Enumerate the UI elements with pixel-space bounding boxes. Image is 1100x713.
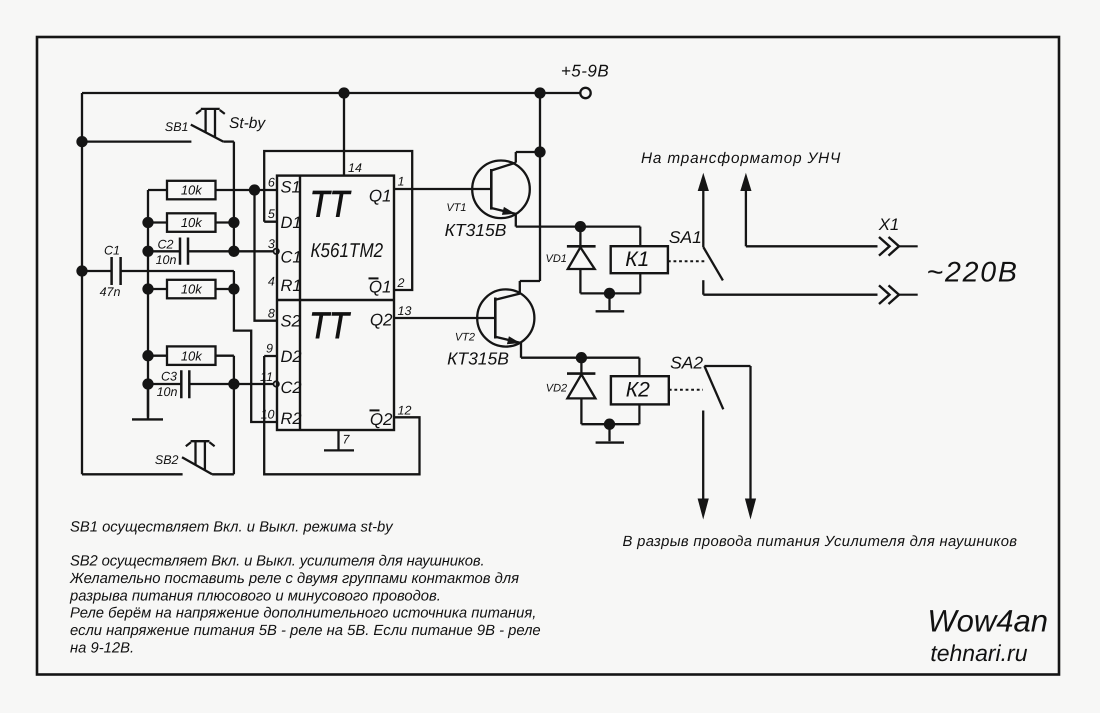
wire K1 bottom: [580, 292, 640, 294]
svg-text:КТ315В: КТ315В: [447, 349, 509, 369]
arrow down headphone 1: [698, 499, 709, 520]
node junction C1 left: [78, 267, 87, 276]
relay K2 coil: [611, 358, 669, 425]
node junction R4 left: [144, 351, 153, 360]
node junction top rail pin14: [340, 89, 349, 98]
wire SB1 right rail down: [233, 142, 235, 252]
svg-text:SA1: SA1: [669, 228, 702, 247]
arrow down headphone 2: [745, 499, 756, 520]
svg-text:tehnari.ru: tehnari.ru: [930, 640, 1027, 666]
svg-text:X1: X1: [878, 215, 900, 234]
svg-text:S1: S1: [281, 179, 301, 197]
svg-text:Q2: Q2: [370, 310, 393, 329]
wire R4 right down to SB2: [233, 356, 235, 475]
diode VD2: [567, 358, 595, 425]
wire X1 upper: [746, 245, 878, 247]
wire K2 dashed link SA2: [669, 389, 703, 391]
svg-text:14: 14: [348, 161, 362, 175]
wire VT2 emitter to K2: [521, 357, 639, 359]
wire X1 lower: [703, 294, 877, 296]
svg-text:C2: C2: [158, 237, 174, 251]
wire K2 bottom: [581, 423, 639, 425]
wire left supply vertical: [81, 93, 83, 474]
overbar Q1bar: [369, 277, 379, 279]
node junction C2 left: [144, 247, 153, 256]
svg-text:К561ТМ2: К561ТМ2: [311, 240, 384, 262]
svg-text:9: 9: [266, 342, 273, 356]
capacitor C3 10n: [148, 370, 273, 398]
svg-text:6: 6: [268, 176, 275, 190]
node junction R3 left: [144, 285, 153, 294]
relay K1 coil: [611, 227, 668, 294]
svg-text:Желательно поставить реле с дв: Желательно поставить реле с двумя группа…: [69, 571, 519, 587]
svg-text:VD1: VD1: [545, 253, 566, 265]
wire Q1bar to D1 feedback: [264, 151, 412, 290]
connector X1 chevrons lower: [879, 285, 918, 304]
node junction K2 ground: [605, 420, 614, 429]
svg-text:5: 5: [268, 207, 275, 221]
node junction R3 right: [229, 285, 238, 294]
svg-text:TT: TT: [310, 184, 352, 225]
svg-text:R2: R2: [281, 410, 302, 428]
resistor R 10k row2: [148, 213, 234, 232]
node junction C3 right: [229, 380, 238, 389]
svg-text:2: 2: [397, 276, 405, 290]
wire Q2bar to D2 feedback: [264, 356, 419, 474]
svg-text:10n: 10n: [156, 253, 177, 267]
wire +5-9B power rail: [82, 92, 581, 94]
svg-text:SB1 осуществляет Вкл. и Выкл.: SB1 осуществляет Вкл. и Выкл. режима st-…: [70, 520, 394, 536]
node junction C3 left: [144, 380, 153, 389]
switch SB2: [182, 441, 234, 474]
ground pin7: [324, 430, 354, 450]
svg-text:10n: 10n: [157, 385, 178, 399]
node junction R2 right: [229, 218, 238, 227]
wire bottom left to SB2: [82, 473, 183, 475]
resistor R 10k row4: [148, 346, 234, 365]
svg-text:В разрыв провода питания Усили: В разрыв провода питания Усилителя для н…: [623, 534, 1018, 550]
svg-text:3: 3: [268, 237, 275, 251]
node junction SB1 left: [78, 137, 87, 146]
overbar Q2bar: [370, 409, 380, 411]
svg-text:Q2: Q2: [370, 410, 393, 429]
svg-text:10: 10: [261, 408, 275, 422]
svg-text:C2: C2: [281, 379, 302, 397]
svg-text:10k: 10k: [181, 215, 203, 230]
diode VD1: [567, 227, 596, 294]
resistor R 10k row3: [148, 280, 234, 299]
arrow to transformer 2: [740, 173, 751, 247]
svg-text:SB2: SB2: [155, 453, 179, 467]
node junction R2 left: [144, 218, 153, 227]
svg-text:1: 1: [398, 175, 405, 189]
svg-text:К1: К1: [625, 248, 649, 271]
svg-text:St-by: St-by: [229, 115, 266, 132]
svg-text:На трансформатор УНЧ: На трансформатор УНЧ: [641, 150, 841, 167]
wire K1 dashed link SA1: [668, 260, 706, 262]
node junction VD2 top: [577, 353, 586, 362]
wire C1 to R1 pin: [234, 271, 277, 422]
node junction VT1 collector: [536, 148, 545, 157]
switch SA2: [703, 366, 750, 499]
terminal X +5-9B open circle: [580, 88, 590, 98]
svg-text:~220В: ~220В: [927, 257, 1019, 289]
wire collector rail: [520, 93, 540, 294]
connector X1 chevrons upper: [879, 237, 918, 256]
svg-text:разрыва питания плюсового и ми: разрыва питания плюсового и минусового п…: [69, 588, 441, 604]
svg-text:на 9-12В.: на 9-12В.: [70, 641, 134, 657]
ground K1: [596, 293, 625, 311]
svg-text:C3: C3: [161, 369, 177, 383]
node junction K1 ground: [605, 289, 614, 298]
svg-text:VD2: VD2: [546, 383, 567, 395]
svg-text:Q1: Q1: [369, 277, 392, 296]
capacitor C1 47n: [82, 257, 234, 285]
svg-text:SB1: SB1: [165, 120, 189, 134]
svg-text:13: 13: [398, 304, 412, 318]
transistor Q2 VT2 KT315B: [477, 289, 534, 357]
svg-text:SA2: SA2: [670, 354, 704, 373]
svg-text:+5-9В: +5-9В: [561, 62, 609, 81]
svg-text:10k: 10k: [181, 183, 203, 198]
wire VT1 emitter to K1: [516, 225, 641, 227]
node junction VD1 top: [576, 222, 585, 231]
wire left bias rail: [147, 190, 149, 417]
ground K2: [596, 424, 624, 442]
svg-text:C1: C1: [281, 248, 302, 266]
wire pin14: [343, 93, 345, 176]
ground left rail: [132, 384, 163, 419]
svg-text:10k: 10k: [181, 282, 203, 297]
svg-text:7: 7: [343, 433, 351, 447]
svg-text:S2: S2: [281, 312, 301, 330]
wire S2 drop: [255, 190, 278, 321]
arrow to transformer 1: [698, 173, 709, 191]
svg-text:если напряжение питания 5В - р: если напряжение питания 5В - реле на 5В.…: [70, 623, 541, 639]
transistor Q1 VT1 KT315B: [472, 152, 540, 227]
node junction top rail collector: [536, 89, 545, 98]
svg-text:C1: C1: [104, 243, 120, 257]
svg-text:TT: TT: [309, 305, 351, 346]
svg-text:D2: D2: [281, 348, 302, 366]
svg-text:D1: D1: [281, 214, 302, 232]
wire Q2 to VT2: [394, 317, 495, 319]
svg-text:КТ315В: КТ315В: [445, 220, 507, 240]
switch SB1: [82, 109, 234, 142]
svg-text:К2: К2: [626, 378, 650, 401]
switch SA1: [703, 191, 723, 295]
pin bubble C1 input: [274, 249, 279, 254]
svg-text:SB2 осуществляет Вкл. и Выкл.: SB2 осуществляет Вкл. и Выкл. усилителя …: [70, 554, 484, 570]
svg-text:8: 8: [268, 307, 275, 321]
svg-text:47n: 47n: [100, 285, 121, 299]
op-amp U1 K561TM2 flip-flop box: [277, 176, 394, 430]
svg-text:12: 12: [398, 404, 412, 418]
node junction S1/S2: [250, 186, 259, 195]
capacitor C2 10n: [148, 238, 273, 265]
svg-text:Реле берём на напряжение допол: Реле берём на напряжение дополнительного…: [70, 606, 536, 622]
wire Q1 to VT1: [394, 188, 491, 190]
svg-text:11: 11: [260, 370, 273, 384]
svg-text:Wow4an: Wow4an: [927, 604, 1048, 639]
node junction C2 right: [229, 247, 238, 256]
svg-text:10k: 10k: [181, 348, 203, 363]
resistor R 10k row1: [148, 181, 277, 200]
pin bubble C2 input: [274, 381, 279, 386]
svg-text:VT2: VT2: [455, 332, 475, 344]
svg-text:Q1: Q1: [369, 186, 392, 205]
svg-text:R1: R1: [281, 277, 302, 295]
svg-text:VT1: VT1: [446, 202, 466, 214]
svg-text:4: 4: [268, 275, 275, 289]
